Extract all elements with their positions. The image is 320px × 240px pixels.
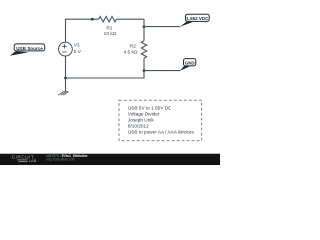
svg-text:1.552 VDC: 1.552 VDC <box>186 16 209 21</box>
CircuitLab logo <box>12 154 37 163</box>
notes dashed box <box>119 100 202 140</box>
svg-text:R1: R1 <box>106 26 112 32</box>
node junction at R2 bottom <box>143 69 146 72</box>
wire: V3 bottom lead <box>65 56 67 78</box>
svg-text:4.5 kΩ: 4.5 kΩ <box>124 49 138 55</box>
svg-text:10 kΩ: 10 kΩ <box>104 31 117 37</box>
svg-text:Joseph Unik: Joseph Unik <box>128 118 154 123</box>
notes text <box>128 106 195 135</box>
svg-text:USB to power AA / AAA devices: USB to power AA / AAA devices <box>128 130 195 135</box>
wire: R1 right, corner, down to R2 <box>117 19 145 41</box>
svg-text:5 V: 5 V <box>74 49 82 55</box>
svg-text:Voltage Divider: Voltage Divider <box>128 112 160 117</box>
ground <box>58 92 69 96</box>
svg-text:USB Source: USB Source <box>16 46 43 51</box>
svg-text:V3: V3 <box>74 43 80 49</box>
annotation USB Source <box>10 44 45 56</box>
voltage source V3 <box>59 42 73 56</box>
wire: V3 top lead up and right to R1 <box>66 19 99 42</box>
wire: junction to 1.552 VDC flag <box>144 26 180 28</box>
svg-text:R2: R2 <box>130 44 136 50</box>
resistor R2 <box>141 41 146 58</box>
svg-text:http://circuitlab.com: http://circuitlab.com <box>46 157 75 161</box>
svg-text:8/10/2012: 8/10/2012 <box>128 124 149 129</box>
annotation 1.552 VDC probe flag <box>180 14 209 27</box>
wire: R2 bottom down and left along bottom <box>66 58 145 78</box>
footer bar <box>0 153 220 154</box>
node junction bottom left <box>64 77 67 80</box>
svg-text:GND: GND <box>185 61 195 66</box>
svg-text:LAB: LAB <box>29 158 37 163</box>
annotation GND flag <box>180 59 196 71</box>
wire: junction to GND flag <box>144 70 180 72</box>
node junction to voltage probe <box>143 25 146 28</box>
wire: down to ground <box>65 78 67 91</box>
svg-text:USB 5V to 1.55V DC: USB 5V to 1.55V DC <box>128 106 172 111</box>
node dot left of R1 <box>91 18 94 21</box>
resistor R1 <box>99 17 117 22</box>
